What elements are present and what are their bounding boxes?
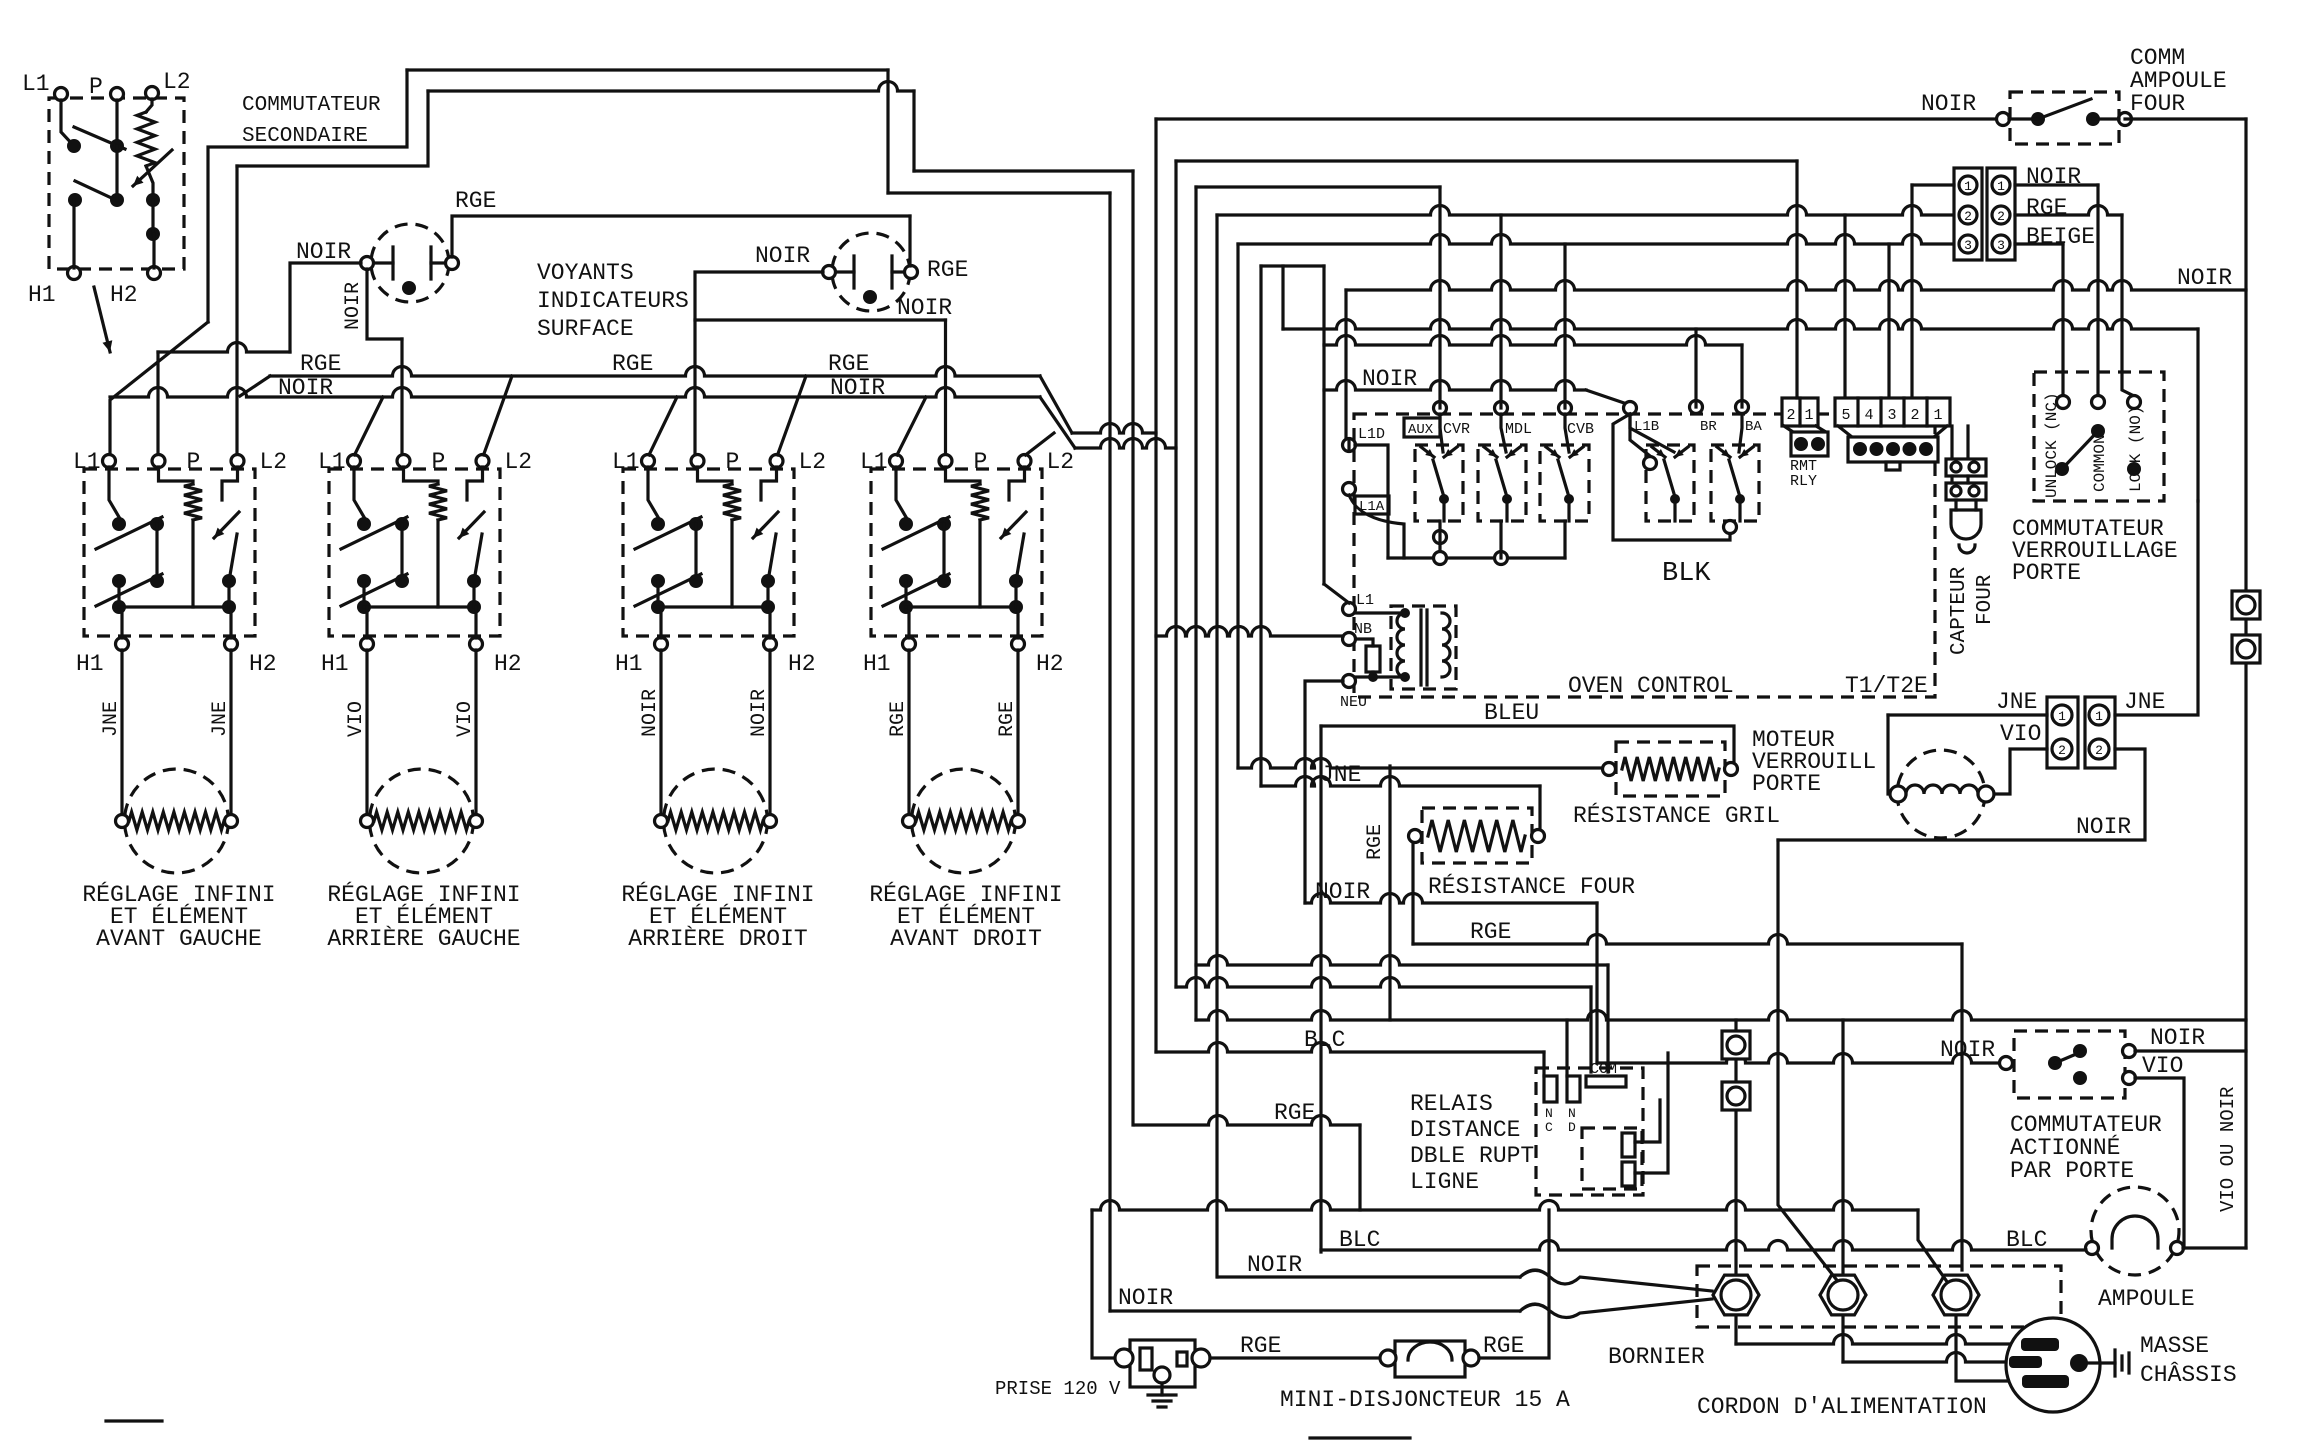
voyant lamp 1	[371, 224, 449, 302]
connector block left	[1954, 168, 1982, 260]
rail junction circle	[1495, 552, 1508, 565]
transformer primary coil	[1397, 613, 1405, 677]
svg-text:FOUR: FOUR	[2130, 91, 2185, 117]
svg-text:VIO: VIO	[345, 701, 368, 737]
svg-text:RELAIS: RELAIS	[1410, 1091, 1493, 1117]
svg-text:RLY: RLY	[1790, 473, 1817, 490]
RGE bus right ramp	[1040, 376, 1072, 433]
svg-text:BA: BA	[1745, 419, 1762, 435]
BA loop contact	[1724, 521, 1737, 534]
wire hex2 bottom	[1841, 1318, 1844, 1362]
unit1 switch arm	[96, 517, 162, 549]
door switch right terminal 1	[2123, 1045, 2136, 1058]
plug ground contact	[2070, 1354, 2088, 1372]
unit2 switch arm 2	[341, 574, 407, 606]
svg-text:P: P	[89, 74, 103, 100]
prise ground pin	[1154, 1367, 1170, 1383]
svg-text:H1: H1	[28, 282, 56, 308]
unit2 bottom bar	[364, 605, 474, 608]
wire pin2 right	[2015, 206, 2122, 216]
voyant1 left terminal	[361, 257, 374, 270]
diag NOIR to L1 unit3	[649, 397, 677, 455]
svg-text:NOIR: NOIR	[748, 689, 771, 737]
unit4 contact dot	[899, 517, 913, 531]
capteur terminal box 1	[1946, 459, 1986, 476]
unit3 contact dot	[651, 600, 665, 614]
motor left terminal	[1890, 786, 1906, 802]
wire voyant RGE link	[452, 216, 910, 257]
unit1 wire H1 to element	[120, 650, 123, 815]
unit1 wire H2 to element	[229, 650, 232, 815]
svg-text:LOCK (NO): LOCK (NO)	[2127, 406, 2145, 492]
wire L1B contact	[1630, 414, 1650, 456]
unit4 wire H1	[907, 607, 910, 638]
svg-text:H2: H2	[1036, 651, 1064, 677]
wire four-left drop	[1411, 842, 1414, 944]
wire lamp switch to right bus	[2125, 117, 2246, 120]
unit3 contact link	[694, 524, 697, 581]
wire pin2-2 NOIR	[1778, 749, 2145, 840]
unit2 terminal L1	[348, 455, 361, 468]
svg-text:1: 1	[1964, 179, 1972, 194]
unit2 contact dot	[395, 574, 409, 588]
jne connector block 1	[2047, 697, 2078, 768]
relay terminal BR	[1690, 401, 1703, 414]
L1B loop contact	[1644, 457, 1657, 470]
prise 120V box	[1130, 1340, 1195, 1387]
unit1 wiper arrow	[214, 512, 239, 538]
bus E y=244	[1238, 235, 1954, 245]
unit1 contact dot	[112, 517, 126, 531]
transformer node	[1400, 608, 1410, 618]
unit4 contact dot	[1009, 600, 1023, 614]
wire NOIR y=390	[1324, 381, 1586, 391]
svg-text:L1D: L1D	[1358, 426, 1385, 443]
unit4 terminal P	[939, 455, 952, 468]
svg-text:DBLE RUPT: DBLE RUPT	[1410, 1143, 1534, 1169]
svg-text:T1/T2E: T1/T2E	[1845, 673, 1928, 699]
svg-text:NOIR: NOIR	[1362, 366, 1417, 392]
unit4 terminal L1	[890, 455, 903, 468]
wire door sw VIO	[2135, 1078, 2184, 1248]
RGE extension	[1072, 424, 1156, 434]
bus G NOIR y=290	[1346, 281, 2246, 291]
unit2 wire L2 in	[467, 467, 483, 500]
svg-text:H2: H2	[249, 651, 277, 677]
NOIR extension	[1075, 439, 1176, 449]
relais coil box	[1582, 1128, 1642, 1189]
ampoule right terminal	[2171, 1242, 2184, 1255]
common terminal	[2092, 396, 2105, 409]
unit1 switch arm 2	[96, 574, 162, 606]
NOIR bus	[110, 388, 1040, 398]
wire L2 to resistor	[146, 99, 152, 112]
bus B y=161	[1176, 159, 1797, 162]
bus D y=215	[1217, 206, 1954, 216]
wire resistor to contact	[146, 166, 153, 200]
svg-text:AMPOULE: AMPOULE	[2098, 1286, 2195, 1312]
cordon plug circle	[2006, 1318, 2100, 1412]
lamp switch arm	[2038, 99, 2091, 119]
svg-text:RGE: RGE	[2026, 195, 2067, 221]
svg-text:VIO: VIO	[2142, 1053, 2183, 1079]
jne pin 1-1	[2052, 705, 2072, 725]
connector 5-pin	[1835, 398, 1950, 426]
wire NB feed	[1156, 627, 1343, 636]
unit2 contact dot	[467, 600, 481, 614]
resistance four box	[1422, 808, 1532, 863]
wire voyant RGE drop	[908, 216, 911, 266]
unit4 wiper arrow	[1001, 512, 1026, 538]
wire JNE drop to four	[1538, 786, 1541, 830]
relay AUX/CVR	[1415, 445, 1463, 521]
unit2 wire L1 in	[354, 467, 364, 517]
wire L1 to transformer	[1355, 611, 1405, 614]
wire RGE y=944	[1413, 935, 1962, 945]
unit1 wire H2	[229, 607, 232, 638]
unit4 bottom bar	[906, 605, 1016, 608]
label L1A box	[1355, 496, 1389, 514]
wire NOIR y=1311	[1110, 1309, 1520, 1312]
door lock motor (dashed circle)	[1897, 750, 1985, 838]
wire JNE into pin1	[1888, 713, 2047, 716]
svg-text:2: 2	[1786, 407, 1795, 424]
wire BLC to ampoule	[1321, 1241, 2086, 1251]
unit4 terminal L2	[1018, 455, 1031, 468]
infinite switch unit 4 box	[871, 469, 1042, 636]
relay terminal L1B	[1624, 402, 1637, 415]
wire L1 to contact	[61, 100, 74, 146]
bornier box	[1697, 1266, 2061, 1327]
wiper arrow	[133, 150, 172, 186]
wire fuse to NEU rail	[1371, 672, 1374, 677]
svg-text:1: 1	[1997, 179, 2005, 194]
unit3 wiper arm	[768, 534, 776, 581]
svg-text:NOIR: NOIR	[897, 295, 952, 321]
unit4 wire H2	[1016, 607, 1019, 638]
connector 2|1	[1782, 398, 1818, 426]
wire 2|1 drop	[1795, 161, 1798, 398]
jne pin 1-2	[2052, 739, 2072, 759]
svg-text:D: D	[1568, 1120, 1576, 1135]
lamp switch right terminal	[2119, 113, 2132, 126]
bus A vertical x=1156	[1154, 119, 1157, 1052]
wire pin3 right	[2015, 242, 2063, 245]
wire L1A arc	[1349, 495, 1404, 558]
svg-text:NOIR: NOIR	[1940, 1037, 1995, 1063]
wire pin2-1 to door lock	[2115, 501, 2198, 715]
element 4 left terminal	[903, 815, 916, 828]
lamp switch contact dot	[2086, 112, 2100, 126]
bornier hex nut 3	[1933, 1275, 1979, 1315]
contact dot	[146, 193, 160, 207]
moteur left terminal	[1603, 763, 1616, 776]
relais NC element	[1544, 1076, 1557, 1102]
prise slot 2	[1177, 1352, 1187, 1366]
wire hex2 drop	[1841, 1020, 1844, 1272]
wire drop to P unit4	[944, 320, 947, 455]
wire LOCK drop	[2122, 215, 2134, 396]
wire hex3 bottom	[1956, 1318, 2022, 1381]
prise slot 1	[1140, 1348, 1152, 1370]
svg-text:MDL: MDL	[1505, 421, 1532, 438]
bus F y=266	[1261, 264, 1324, 267]
svg-text:BLC: BLC	[2006, 1227, 2047, 1253]
svg-text:RGE: RGE	[1483, 1333, 1524, 1359]
connector pin 1 left	[1959, 176, 1977, 194]
infinite switch unit 1 box	[84, 469, 255, 636]
svg-text:JNE: JNE	[100, 701, 123, 737]
diag RGE to L2 unit2	[484, 376, 513, 455]
unit2 wire H2	[474, 607, 477, 638]
bornier hex nut 1	[1713, 1275, 1759, 1315]
wire P to contact	[115, 100, 118, 146]
svg-text:P: P	[432, 449, 446, 475]
bus E vertical x=1238	[1236, 244, 1239, 768]
door switch contact dot 2	[2073, 1044, 2087, 1058]
plug prong 3	[2022, 1375, 2069, 1388]
svg-text:SECONDAIRE: SECONDAIRE	[242, 125, 368, 148]
transformer box	[1391, 606, 1456, 689]
svg-text:3: 3	[1997, 238, 2005, 253]
svg-text:PRISE 120 V: PRISE 120 V	[995, 1378, 1121, 1400]
wire W1 to bus	[888, 191, 1110, 194]
element 1 resistor	[129, 812, 224, 830]
svg-text:L2: L2	[163, 69, 191, 95]
svg-text:NOIR: NOIR	[2150, 1025, 2205, 1051]
5-pin dots	[1853, 442, 1867, 456]
RMT RLY funnel	[1784, 426, 1793, 432]
element 3 left terminal	[655, 815, 668, 828]
capteur wires up	[1950, 426, 1953, 459]
element 3 right terminal	[764, 815, 777, 828]
unit3 wire P to resistor	[698, 467, 733, 484]
bus C y=187	[1196, 185, 1440, 188]
svg-text:ARRIÈRE GAUCHE: ARRIÈRE GAUCHE	[327, 925, 520, 952]
svg-text:SURFACE: SURFACE	[537, 316, 634, 342]
svg-text:NOIR: NOIR	[2177, 265, 2232, 291]
unit1 contact link	[155, 524, 158, 581]
unit4 resistor	[971, 484, 989, 520]
unit3 switch arm 2	[635, 574, 701, 606]
terminal L1	[1343, 603, 1356, 616]
unit2 contact dot	[357, 574, 371, 588]
svg-text:CORDON D'ALIMENTATION: CORDON D'ALIMENTATION	[1697, 1394, 1987, 1420]
unit3 resistor	[723, 484, 741, 520]
RGE bus left diagonal	[240, 376, 270, 396]
unit4 contact link 2	[904, 581, 907, 607]
voyant2 left terminal	[823, 266, 836, 279]
wire pin2 drop to cell5	[1843, 215, 1846, 398]
wire voyant1 down branch	[367, 269, 402, 339]
wire W2 right leg	[912, 91, 915, 171]
relais coil element 1	[1622, 1133, 1635, 1157]
svg-text:1: 1	[2095, 709, 2103, 724]
svg-text:NOIR: NOIR	[830, 375, 885, 401]
unit3 wire H1 to element	[659, 650, 662, 815]
svg-text:RÉSISTANCE FOUR: RÉSISTANCE FOUR	[1428, 873, 1635, 900]
terminal L1A	[1343, 483, 1356, 496]
svg-text:RGE: RGE	[1240, 1333, 1281, 1359]
svg-text:2: 2	[2058, 743, 2066, 758]
wire y=1206 diag to hex3	[1918, 1210, 1950, 1286]
relais COM bar	[1586, 1076, 1626, 1087]
ampoule filament	[2112, 1216, 2158, 1248]
relais coil wire 1	[1635, 1100, 1660, 1142]
element 2 (dashed circle)	[370, 769, 474, 873]
unit1 resistor tail	[191, 520, 194, 607]
wire RGE drop to hex3	[1960, 944, 1963, 1270]
common contact dot	[2091, 424, 2105, 438]
unit1 contact dot	[222, 574, 236, 588]
svg-text:UNLOCK (NC): UNLOCK (NC)	[2043, 392, 2061, 498]
svg-text:P: P	[187, 449, 201, 475]
RGE bus	[270, 367, 1040, 377]
relais ND element	[1567, 1076, 1580, 1102]
commutateur secondaire terminal L2	[146, 87, 159, 100]
unit3 switch arm	[635, 517, 701, 549]
resistor (secondaire)	[137, 112, 155, 166]
5-pin tab	[1886, 462, 1900, 470]
contact dot	[110, 139, 124, 153]
lock contact dot	[2127, 462, 2141, 476]
svg-text:VIO OU NOIR: VIO OU NOIR	[2217, 1087, 2239, 1212]
wire NOIR y=903	[1305, 894, 1597, 903]
wire x=1092 to prise	[1092, 1210, 1118, 1358]
svg-text:NOIR: NOIR	[342, 282, 365, 330]
svg-text:JNE: JNE	[209, 701, 232, 737]
element 1 left terminal	[116, 815, 129, 828]
infinite switch unit 2 box	[329, 469, 500, 636]
unit1 bottom bar	[119, 605, 229, 608]
unit4 switch arm	[883, 517, 949, 549]
svg-text:JNE: JNE	[1320, 762, 1361, 788]
bus D vertical x=1217	[1215, 215, 1218, 1277]
door switch left terminal	[2000, 1057, 2013, 1070]
unit2 contact dot	[357, 600, 371, 614]
wire hex1 bottom	[1734, 1318, 1737, 1344]
unit1 wire P to resistor	[159, 467, 194, 484]
svg-text:1: 1	[1933, 407, 1942, 424]
unit4 wiper arm	[1016, 534, 1024, 581]
element 4 right terminal	[1012, 815, 1025, 828]
wire RGE y=1125	[1135, 1116, 1360, 1126]
unit4 wire H1 to element	[907, 650, 910, 815]
element 1 right terminal	[225, 815, 238, 828]
svg-text:COM: COM	[1590, 1061, 1617, 1078]
four resistor	[1428, 820, 1525, 852]
unit2 contact link	[400, 524, 403, 581]
unit1 resistor	[184, 484, 202, 520]
svg-text:H1: H1	[615, 651, 643, 677]
diag NOIR to L1 unit2	[355, 397, 384, 455]
wire drop to P unit2	[400, 339, 403, 455]
disjoncteur element	[1408, 1342, 1452, 1360]
svg-text:L1: L1	[1356, 592, 1374, 609]
voyant1 right terminal	[446, 257, 459, 270]
lamp switch wire segments	[2009, 117, 2119, 120]
svg-text:RGE: RGE	[1274, 1100, 1315, 1126]
voyant2 right terminal	[905, 266, 918, 279]
element 3 resistor	[668, 812, 763, 830]
wire NOIR y=1063	[1597, 1054, 2000, 1064]
wire CVR drop	[1438, 187, 1441, 408]
connector pin 3 left	[1959, 235, 1977, 253]
unit2 contact dot	[357, 517, 371, 531]
svg-text:VOYANTS: VOYANTS	[537, 260, 634, 286]
infinite switch unit 3 box	[623, 469, 794, 636]
relay terminal BA	[1736, 401, 1749, 414]
element 1 (dashed circle)	[125, 769, 229, 873]
svg-text:JNE: JNE	[1996, 689, 2037, 715]
svg-text:RGE: RGE	[455, 188, 496, 214]
unit4 terminal H1	[903, 638, 916, 651]
unit3 wire H1	[659, 607, 662, 638]
unit3 contact dot	[761, 574, 775, 588]
unit3 contact dot	[651, 517, 665, 531]
unit4 wire H2 to element	[1016, 650, 1019, 815]
unit1 wire H1	[120, 607, 123, 638]
unit3 terminal H2	[764, 638, 777, 651]
door switch box	[2014, 1031, 2125, 1098]
svg-text:L2: L2	[1047, 449, 1075, 475]
unlock contact dot	[2055, 462, 2069, 476]
screw terminal	[1722, 1082, 1750, 1110]
wire ampoule right	[2183, 1246, 2246, 1249]
jne pin 2-1	[2089, 705, 2109, 725]
svg-text:N: N	[1545, 1106, 1553, 1121]
relay terminal MDL	[1495, 402, 1508, 415]
unit1 contact link 2	[117, 581, 120, 607]
moteur verrouill porte box	[1616, 742, 1725, 796]
bus F drop x=1324	[1322, 266, 1325, 584]
wire y=965 drop	[1606, 965, 1609, 1072]
unit1 wire L1 in	[109, 467, 119, 517]
unit2 resistor	[429, 484, 447, 520]
masse ground symbol	[2115, 1350, 2129, 1376]
door switch arm	[2055, 1052, 2081, 1063]
bus H y=329	[1283, 320, 2198, 330]
switch arm	[74, 127, 125, 149]
svg-text:BLEU: BLEU	[1484, 700, 1539, 726]
wire COMMON drop	[2096, 185, 2099, 396]
svg-text:FOUR: FOUR	[1974, 574, 1997, 625]
wire x=1778 drop	[1778, 840, 1843, 1288]
wire W2 left vertical to L2 unit1	[235, 166, 238, 455]
relay L1B	[1646, 445, 1694, 521]
svg-text:PAR PORTE: PAR PORTE	[2010, 1158, 2134, 1184]
unit2 wire H1	[365, 607, 368, 638]
wire NEU run	[1305, 681, 1343, 903]
terminal L1D	[1343, 439, 1356, 452]
connector pin 3 right	[1992, 235, 2010, 253]
lamp switch left terminal	[1997, 113, 2010, 126]
wire contact link	[151, 200, 154, 234]
prise right terminal	[1192, 1349, 1210, 1367]
four left terminal	[1409, 830, 1422, 843]
oven bottom rail	[1388, 556, 1565, 559]
masse wire	[2088, 1361, 2115, 1364]
svg-text:MASSE: MASSE	[2140, 1333, 2209, 1359]
relay BA	[1711, 445, 1759, 521]
wire L1B side loop	[1613, 414, 1730, 540]
oven fuse box	[1366, 646, 1380, 672]
oven lamp switch box	[2010, 92, 2119, 144]
unit4 contact dot	[937, 574, 951, 588]
element 2 resistor	[374, 812, 469, 830]
wire W1 right leg	[886, 70, 889, 193]
5-pin funnel	[1838, 426, 1852, 437]
